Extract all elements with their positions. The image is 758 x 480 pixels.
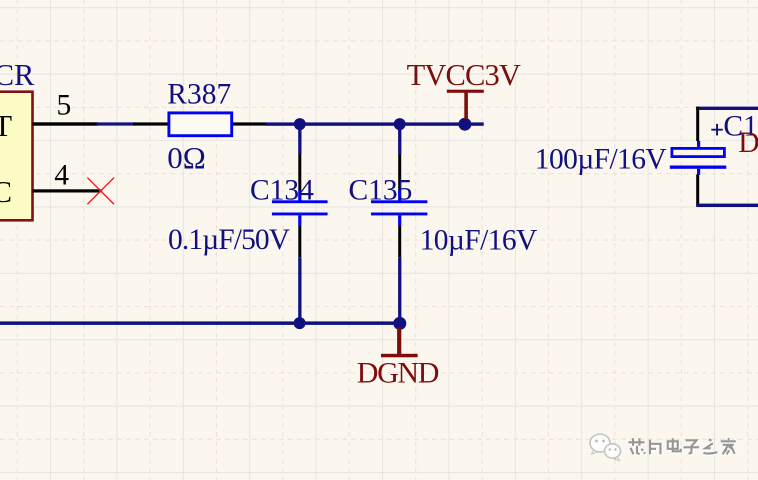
- svg-text:0Ω: 0Ω: [167, 140, 206, 175]
- capacitor C134 bottom pin: [298, 226, 301, 258]
- wire: C135 branch upper: [398, 124, 401, 154]
- capacitor C135 symbol: [371, 190, 427, 225]
- svg-text:R387: R387: [167, 78, 231, 110]
- net label TVCC3V: [407, 58, 521, 92]
- value 10µF/16V: [420, 224, 537, 256]
- no-connect X on pin 4: [87, 178, 114, 205]
- wire: C134 branch lower: [298, 257, 301, 323]
- svg-text:C: C: [0, 174, 12, 209]
- pin name C: [0, 174, 12, 209]
- wire: right cap top rail: [696, 107, 758, 110]
- pin name T: [0, 108, 12, 143]
- wire: pin5 to R387: [97, 122, 136, 125]
- junction node at C134/bottom rail: [294, 317, 306, 329]
- power symbol TVCC3V (bar): [447, 90, 484, 93]
- pin number 4: [54, 159, 69, 191]
- designator CR (clipped): [0, 58, 35, 92]
- svg-text:C134: C134: [250, 175, 314, 207]
- watermark text 芯片电子之家 (stylised): [629, 438, 737, 455]
- svg-text:100µF/16V: 100µF/16V: [535, 143, 667, 175]
- wire: right cap bottom rail: [696, 204, 758, 207]
- capacitor C135 bottom pin: [398, 226, 401, 258]
- capacitor C134 top pin: [298, 155, 301, 191]
- svg-text:DGND: DGND: [357, 357, 439, 390]
- ground symbol DGND (stem): [397, 328, 401, 355]
- net label DGND: [357, 357, 439, 390]
- junction node at C134/top rail: [294, 118, 306, 130]
- svg-text:TVCC3V: TVCC3V: [407, 58, 521, 92]
- junction node at C135/top rail: [394, 118, 406, 130]
- component U? body (yellow box, clipped at left edge): [0, 92, 33, 221]
- resistor R387 left pin: [133, 122, 168, 125]
- label C134: [250, 175, 314, 207]
- wire: C134 branch upper: [298, 124, 301, 154]
- ground symbol DGND (bar): [381, 354, 418, 358]
- designator C136 (clipped): [723, 110, 758, 142]
- capacitor C134 symbol: [272, 190, 328, 225]
- wire: C135 branch lower: [398, 257, 401, 323]
- pin 4: [33, 189, 101, 192]
- polarity + mark: [711, 124, 723, 136]
- capacitor C136 bottom pin: [696, 175, 699, 206]
- svg-text:DVCC: DVCC: [738, 127, 758, 159]
- watermark logo (chat bubbles): [590, 434, 621, 461]
- capacitor C136 top pin: [696, 107, 699, 142]
- value 100µF/16V: [535, 143, 667, 175]
- value 0Ω: [167, 140, 206, 175]
- svg-text:4: 4: [54, 159, 69, 191]
- svg-text:5: 5: [57, 89, 72, 121]
- label R387: [167, 78, 231, 110]
- svg-text:CR: CR: [0, 58, 35, 92]
- resistor R387 right pin: [233, 122, 267, 125]
- wire: top rail R387 to TVCC3V: [266, 122, 484, 125]
- net label D... (clipped): [738, 127, 758, 159]
- capacitor C135 top pin: [398, 155, 401, 191]
- power symbol TVCC3V (stem): [464, 92, 468, 120]
- resistor R387 body: [169, 113, 232, 136]
- label C135: [349, 175, 413, 207]
- svg-text:10µF/16V: 10µF/16V: [420, 224, 537, 256]
- value 0.1µF/50V: [168, 224, 290, 256]
- wire: bottom rail: [0, 321, 400, 325]
- junction node at TVCC3V/top rail: [458, 118, 471, 131]
- svg-text:T: T: [0, 108, 12, 143]
- pin 5: [33, 122, 98, 125]
- polarized capacitor C136 symbol: [670, 141, 727, 175]
- svg-text:C135: C135: [349, 175, 413, 207]
- pin number 5: [57, 89, 72, 121]
- svg-text:0.1µF/50V: 0.1µF/50V: [168, 224, 290, 256]
- junction node at C135/DGND: [393, 317, 406, 330]
